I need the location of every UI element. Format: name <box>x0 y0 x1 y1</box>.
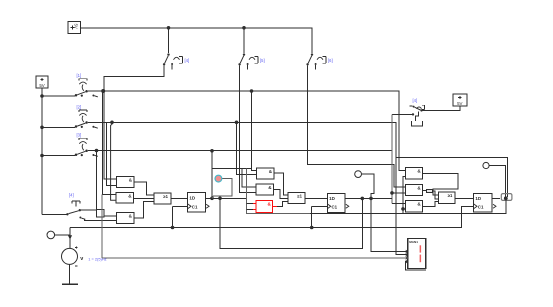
svg-text:[1]: [1] <box>77 73 82 78</box>
display pin arrow 3 <box>406 257 408 260</box>
wire from V4 to switch S7 <box>423 106 460 110</box>
wire red A6 output <box>273 205 277 207</box>
svg-text:[2]: [2] <box>77 104 82 109</box>
wire top rail from V2 to switch S6 drop <box>81 28 313 53</box>
wire U-loop from Q1 line down and back up to Q2 line <box>220 198 362 248</box>
terminal T1 (open circle) <box>47 231 55 239</box>
wire A3 output to OR O1 input 3 <box>134 201 154 218</box>
wire A4 output to OR O2 input 1 <box>274 173 288 195</box>
wire Q2 output line <box>345 197 392 199</box>
wire drop rail91 to AND A2 input A <box>102 91 116 195</box>
switch S0 key [4] (bottom left) <box>42 213 66 215</box>
DC source V3 +5V box (left) <box>36 76 48 88</box>
svg-text:5V: 5V <box>39 83 44 88</box>
svg-text:MAN1: MAN1 <box>409 240 418 244</box>
OR gate O1 <box>154 193 171 204</box>
clock source plus mark <box>75 246 78 249</box>
net connector blob <box>501 194 512 201</box>
wire U1 clock from clock rail <box>173 206 188 227</box>
wire T2 down through Q2 to display pin 1 <box>361 174 407 251</box>
junction dot rail122/A4 drop <box>235 121 239 125</box>
wire T1 to clock node <box>55 234 70 236</box>
wire A2 output to OR O1 input 2 <box>134 197 155 199</box>
wire rail Y91 from S1 throw to right cluster (AND A7 input A) <box>88 91 405 170</box>
wire A9 input A stub <box>392 202 405 204</box>
wire T3 to net junction <box>489 166 505 198</box>
svg-text:[4]: [4] <box>185 58 190 63</box>
svg-text:1 = 2(5)Hz: 1 = 2(5)Hz <box>88 257 106 262</box>
junction dot rail91/S4-net <box>101 89 105 93</box>
OR gate O2 <box>288 192 305 203</box>
ground symbol GND2 <box>62 283 78 285</box>
junction dot bus/S1 pole <box>40 94 44 98</box>
clock source V1 circle <box>62 248 78 264</box>
wire branch y168 toward A4 <box>212 167 252 169</box>
wire A7 output loop to OR O3 input 1 <box>423 173 458 195</box>
wire feedback from Q3 node to A7 input B <box>310 176 506 213</box>
junction dot rail150/x212 riser <box>210 149 214 153</box>
junction dot clock rail / U2 riser <box>310 226 314 230</box>
arrowhead into clock source <box>68 235 72 239</box>
wire clock rail from source to U3 clock <box>70 206 474 227</box>
wire A6 input A stub <box>247 203 254 205</box>
svg-text:C1: C1 <box>192 205 198 210</box>
svg-text:1D: 1D <box>189 195 196 200</box>
wire A8 input B stub <box>392 192 405 194</box>
svg-text:≥1: ≥1 <box>163 194 168 199</box>
DC source V4 +5V box (right) <box>453 94 467 106</box>
svg-text:5V: 5V <box>74 24 79 29</box>
OR gate O3 <box>438 192 455 204</box>
wire V1 to ground <box>69 264 71 283</box>
D flip-flop U2 <box>327 193 345 212</box>
wire display pin 4 hook <box>405 262 425 270</box>
wire O1 output to U1 D input <box>171 197 188 199</box>
junction dot rail150/J1 drop <box>95 149 99 153</box>
D flip-flop U3 <box>474 193 493 212</box>
svg-text:1D: 1D <box>475 196 482 201</box>
AND gate A3 <box>116 212 134 223</box>
svg-text:[5]: [5] <box>260 58 265 63</box>
connector box J2 <box>427 189 433 192</box>
junction dot Q1/x220 <box>218 197 222 201</box>
AND gate A5 <box>256 184 274 195</box>
svg-text:C1: C1 <box>478 205 484 210</box>
AND gate A1 <box>117 177 135 188</box>
junction dot bus/S2 pole <box>40 126 44 130</box>
wire gray net vertical from A2 corner to display pin 3 <box>102 195 408 258</box>
svg-text:C1: C1 <box>332 205 338 210</box>
switch S7 key [4] (right) <box>392 114 412 116</box>
display pin arrow 4 <box>406 260 408 263</box>
wire connector to OR O3 input 2 <box>433 191 439 199</box>
svg-text:1D: 1D <box>329 196 336 201</box>
svg-text:5V: 5V <box>457 101 462 106</box>
terminal T3 (open circle) <box>483 162 489 168</box>
wire S4 throw down-left to rail-91 junction <box>104 65 164 90</box>
wire Q1 output line <box>205 197 246 199</box>
wire probe connection <box>212 179 232 199</box>
terminal T2 (open circle) <box>355 171 362 178</box>
wire gray vertical feed x246.5 <box>247 169 311 214</box>
junction dot Q2/x371 <box>369 197 373 201</box>
wire O2 output to U2 D input <box>305 197 327 199</box>
wire rail Y150 from S3 throw to x392 <box>88 150 392 152</box>
switch S2 key [2] <box>42 126 75 128</box>
svg-text:≥1: ≥1 <box>448 193 453 198</box>
wire S6 throw down, right at y=164, down to AND A8 input A <box>308 65 406 187</box>
wire branch to A9 input B <box>403 208 405 210</box>
ground symbol GND1 <box>412 121 423 126</box>
junction dot clock rail / U1 riser <box>171 226 175 230</box>
junction dot Q1/x212 <box>210 197 214 201</box>
wire drop rail122 to AND A1 input B <box>107 122 117 185</box>
wire S5 throw down to AND A5 input B <box>240 65 256 192</box>
AND gate A8 <box>405 184 422 195</box>
wire left bus from V3 down to bottom switch <box>41 88 43 214</box>
AND gate A9 <box>405 200 422 212</box>
wire U3 Q output to junction <box>492 197 500 199</box>
wire O3 output to U3 D input <box>455 197 474 199</box>
display pin arrow 1 <box>406 250 408 253</box>
wire A6 output to OR O2 input 3 <box>277 201 288 206</box>
AND gate A6 (red highlighted) <box>256 200 273 212</box>
wire A8 output to connector <box>423 189 427 191</box>
wire rail Y122 from S2 throw to right (corner down to rail157) <box>88 122 508 197</box>
seven-segment display U5 <box>408 239 426 269</box>
junction dot top rail / S4 <box>167 26 171 30</box>
wire U2 clock from clock rail <box>312 206 328 227</box>
wire S7 to ground <box>416 112 419 121</box>
wire S7 pole to V4 <box>423 110 426 112</box>
wire drop to AND A4 input B <box>237 122 257 174</box>
junction dot S7-net/A8 input B <box>390 191 394 195</box>
wire A6 input B stub <box>247 208 254 210</box>
AND gate A7 <box>405 168 422 180</box>
wire S0 lower throw to AND A3 input B <box>85 220 117 221</box>
junction dot Q2/x362 <box>361 197 365 201</box>
D flip-flop U1 <box>188 193 206 212</box>
wire riser x212 from rail150 down to Q1 line <box>211 151 213 199</box>
svg-text:[4]: [4] <box>69 193 74 198</box>
DC source V2 +5V box (top, rotated) <box>68 21 81 33</box>
wire drop to AND A2 input B <box>111 122 116 200</box>
switch S1 key [1] <box>42 95 75 97</box>
junction dot bus/S3 pole <box>40 154 44 158</box>
wire A1 output to OR O1 input 1 <box>134 182 154 195</box>
junction dot rail122/A2 drop <box>110 121 114 125</box>
AND gate A4 <box>257 168 275 179</box>
wire branch to AND A5 input A <box>242 168 256 187</box>
probe X1 (pink indicator) <box>215 175 222 182</box>
wire S7-net down (gray) <box>391 115 393 204</box>
display pin arrow 2 <box>406 253 408 256</box>
wire clock node up to clock rail <box>69 228 71 249</box>
svg-text:≥1: ≥1 <box>297 194 302 199</box>
wire drop to AND A1 input A <box>104 91 117 179</box>
junction dot top rail / S5 <box>242 26 246 30</box>
junction dot feedback/A9 <box>401 207 405 211</box>
junction dot Q3 node <box>504 196 508 200</box>
wire J1 to AND A3 input A <box>104 215 116 217</box>
svg-text:[4]: [4] <box>413 98 418 103</box>
wire drop rail91 to AND A4 input A <box>252 91 257 170</box>
display red segment c <box>420 255 422 263</box>
switch S3 key [3] <box>42 155 75 157</box>
switch S4 key [4] (top left) <box>168 28 170 53</box>
wire drop rail150 to connector box J1 <box>96 151 98 210</box>
wire A9 output to OR O3 input 3 <box>423 201 439 206</box>
wire S0 throw to junction box <box>81 209 97 211</box>
svg-text:[3]: [3] <box>77 133 82 138</box>
AND gate A2 <box>116 192 134 202</box>
svg-text:ν: ν <box>80 256 83 262</box>
wire A5 output to OR O2 input 2 <box>274 190 289 199</box>
svg-text:[6]: [6] <box>328 58 333 63</box>
switch S6 key [6] (top right) <box>311 28 313 53</box>
connector box J1 <box>97 210 105 218</box>
wire x396 extension down to display pin 2 <box>396 157 408 254</box>
display red segment b <box>420 245 422 252</box>
switch S5 key [5] (top middle) <box>243 28 245 53</box>
clock source minus mark <box>75 265 78 267</box>
junction dot rail91/A4 drop <box>250 89 254 93</box>
